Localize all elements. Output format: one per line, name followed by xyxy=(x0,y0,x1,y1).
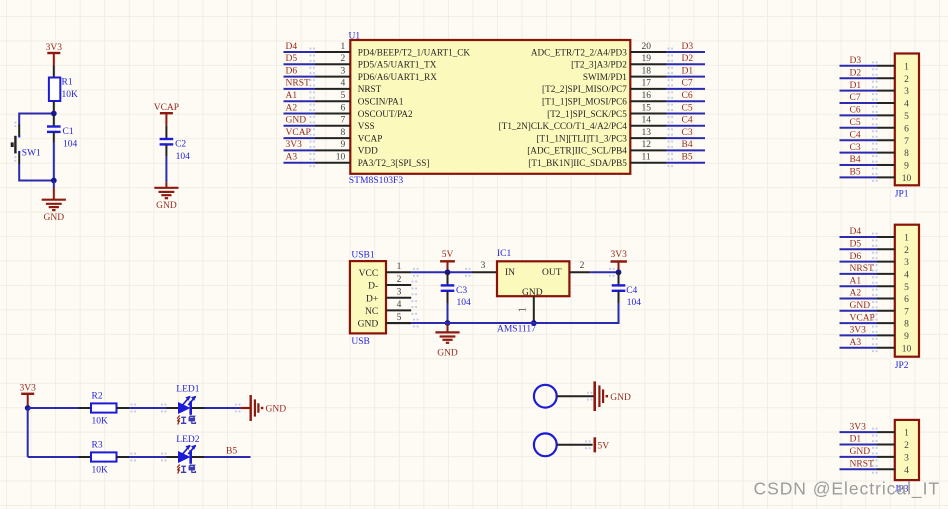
svg-text:PD4/BEEP/T2_1/UART1_CK: PD4/BEEP/T2_1/UART1_CK xyxy=(358,47,471,57)
svg-text:VDD: VDD xyxy=(358,146,378,156)
svg-text:1: 1 xyxy=(518,307,529,312)
svg-text:D5: D5 xyxy=(850,240,862,250)
svg-text:STM8S103F3: STM8S103F3 xyxy=(349,175,404,186)
svg-text:4: 4 xyxy=(904,466,909,476)
svg-text:104: 104 xyxy=(176,152,191,162)
svg-text:8: 8 xyxy=(904,149,909,159)
svg-text:[ADC_ETR]IIC_SCL/PB4: [ADC_ETR]IIC_SCL/PB4 xyxy=(527,146,627,156)
svg-text:OUT: OUT xyxy=(542,268,562,278)
svg-text:B4: B4 xyxy=(850,155,861,165)
svg-text:D1: D1 xyxy=(850,435,862,445)
svg-text:NRST: NRST xyxy=(286,79,310,89)
svg-text:C2: C2 xyxy=(175,140,186,150)
svg-text:IC1: IC1 xyxy=(497,249,512,259)
svg-text:14: 14 xyxy=(642,116,652,126)
svg-text:U1: U1 xyxy=(349,32,361,42)
svg-text:5V: 5V xyxy=(598,442,610,452)
svg-text:CSDN @Electrical_IT: CSDN @Electrical_IT xyxy=(754,479,941,500)
svg-text:D5: D5 xyxy=(286,54,298,64)
svg-text:OSCOUT/PA2: OSCOUT/PA2 xyxy=(358,109,413,119)
svg-text:D-: D- xyxy=(368,282,378,292)
svg-text:4: 4 xyxy=(904,271,909,281)
svg-text:PA3/T2_3[SPI_SS]: PA3/T2_3[SPI_SS] xyxy=(358,158,430,168)
svg-text:1: 1 xyxy=(904,429,909,439)
svg-text:NRST: NRST xyxy=(358,84,382,94)
svg-text:GND: GND xyxy=(156,201,177,211)
svg-text:2: 2 xyxy=(904,75,909,85)
svg-text:5: 5 xyxy=(397,313,402,323)
svg-text:5V: 5V xyxy=(442,250,454,260)
svg-text:C7: C7 xyxy=(850,93,861,103)
svg-text:2: 2 xyxy=(904,441,909,451)
svg-text:D3: D3 xyxy=(850,56,862,66)
svg-text:GND: GND xyxy=(850,447,871,457)
svg-text:A2: A2 xyxy=(850,289,862,299)
svg-text:3V3: 3V3 xyxy=(286,140,303,150)
svg-text:C5: C5 xyxy=(682,103,693,113)
svg-text:LED2: LED2 xyxy=(176,435,199,445)
svg-text:C5: C5 xyxy=(850,118,861,128)
svg-text:3V3: 3V3 xyxy=(850,422,867,432)
svg-text:3: 3 xyxy=(341,66,346,76)
svg-text:2: 2 xyxy=(904,246,909,256)
svg-text:3: 3 xyxy=(904,454,909,464)
svg-text:NRST: NRST xyxy=(850,264,874,274)
svg-text:JP1: JP1 xyxy=(895,190,909,200)
svg-text:C4: C4 xyxy=(626,286,637,296)
svg-text:15: 15 xyxy=(642,103,652,113)
svg-text:C3: C3 xyxy=(682,128,693,138)
svg-text:10K: 10K xyxy=(62,90,79,100)
svg-text:PD5/A5/UART1_TX: PD5/A5/UART1_TX xyxy=(358,60,437,70)
svg-text:A3: A3 xyxy=(286,153,298,163)
svg-text:[T2_2]SPI_MISO/PC7: [T2_2]SPI_MISO/PC7 xyxy=(542,84,627,94)
svg-text:GND: GND xyxy=(522,288,543,298)
svg-text:10K: 10K xyxy=(92,416,109,426)
svg-text:10: 10 xyxy=(336,153,346,163)
svg-text:9: 9 xyxy=(341,140,346,150)
svg-text:7: 7 xyxy=(904,137,909,147)
svg-text:C6: C6 xyxy=(682,91,693,101)
svg-text:AMS1117: AMS1117 xyxy=(497,325,536,335)
svg-text:2: 2 xyxy=(580,261,585,271)
svg-text:D2: D2 xyxy=(850,68,862,78)
svg-text:3V3: 3V3 xyxy=(611,250,628,260)
svg-text:3: 3 xyxy=(904,87,909,97)
svg-text:JP2: JP2 xyxy=(895,361,909,371)
svg-text:D+: D+ xyxy=(366,294,378,304)
svg-text:2: 2 xyxy=(397,275,402,285)
svg-text:D4: D4 xyxy=(286,42,298,52)
svg-text:D4: D4 xyxy=(850,227,862,237)
svg-text:4: 4 xyxy=(341,79,346,89)
svg-text:VCAP: VCAP xyxy=(286,128,311,138)
svg-text:B4: B4 xyxy=(682,140,693,150)
svg-text:VCAP: VCAP xyxy=(850,313,875,323)
svg-text:6: 6 xyxy=(904,295,909,305)
svg-text:IN: IN xyxy=(505,268,515,278)
svg-text:1: 1 xyxy=(904,234,909,244)
svg-text:A2: A2 xyxy=(286,103,298,113)
svg-text:[T1_BK1N]IIC_SDA/PB5: [T1_BK1N]IIC_SDA/PB5 xyxy=(528,158,627,168)
svg-text:2: 2 xyxy=(341,54,346,64)
svg-text:GND: GND xyxy=(358,320,379,330)
svg-text:11: 11 xyxy=(642,153,651,163)
svg-text:6: 6 xyxy=(341,103,346,113)
svg-text:OSCIN/PA1: OSCIN/PA1 xyxy=(358,97,404,107)
svg-text:B5: B5 xyxy=(682,153,693,163)
svg-text:D2: D2 xyxy=(682,54,694,64)
svg-text:13: 13 xyxy=(642,128,652,138)
svg-text:3: 3 xyxy=(481,261,486,271)
svg-text:8: 8 xyxy=(341,128,346,138)
svg-text:LED1: LED1 xyxy=(176,385,199,395)
svg-text:SWIM/PD1: SWIM/PD1 xyxy=(583,72,627,82)
svg-text:C4: C4 xyxy=(682,116,693,126)
svg-text:R1: R1 xyxy=(62,78,73,88)
svg-text:GND: GND xyxy=(850,301,871,311)
svg-text:104: 104 xyxy=(63,139,78,149)
svg-text:USB: USB xyxy=(351,337,369,347)
svg-text:10: 10 xyxy=(902,344,912,354)
svg-text:[T1_1N][TLI]T1_3/PC3: [T1_1N][TLI]T1_3/PC3 xyxy=(536,133,627,143)
svg-text:USB1: USB1 xyxy=(351,251,374,261)
svg-text:3V3: 3V3 xyxy=(20,384,37,394)
svg-text:1: 1 xyxy=(341,42,346,52)
svg-text:D6: D6 xyxy=(850,252,862,262)
svg-text:NC: NC xyxy=(365,307,378,317)
svg-text:5: 5 xyxy=(904,283,909,293)
svg-text:10K: 10K xyxy=(92,465,109,475)
svg-text:104: 104 xyxy=(457,298,472,308)
svg-text:17: 17 xyxy=(642,79,652,89)
svg-text:3V3: 3V3 xyxy=(46,43,63,53)
svg-text:A1: A1 xyxy=(286,91,298,101)
svg-text:7: 7 xyxy=(904,307,909,317)
svg-text:C1: C1 xyxy=(63,127,74,137)
svg-text:C3: C3 xyxy=(850,143,861,153)
svg-text:R2: R2 xyxy=(92,392,103,402)
svg-text:GND: GND xyxy=(44,213,65,223)
svg-text:VSS: VSS xyxy=(358,121,375,131)
svg-text:9: 9 xyxy=(904,162,909,172)
svg-text:GND: GND xyxy=(266,404,287,414)
svg-text:1: 1 xyxy=(397,262,402,272)
svg-text:8: 8 xyxy=(904,320,909,330)
svg-text:18: 18 xyxy=(642,66,652,76)
svg-text:B5: B5 xyxy=(850,168,861,178)
svg-text:3V3: 3V3 xyxy=(850,326,867,336)
svg-text:VCAP: VCAP xyxy=(154,103,179,113)
svg-text:6: 6 xyxy=(904,124,909,134)
svg-text:D3: D3 xyxy=(682,42,694,52)
svg-text:5: 5 xyxy=(904,112,909,122)
svg-text:1: 1 xyxy=(904,62,909,72)
svg-text:VCC: VCC xyxy=(359,269,379,279)
svg-text:[T1_2N]CLK_CCO/T1_4/A2/PC4: [T1_2N]CLK_CCO/T1_4/A2/PC4 xyxy=(499,121,628,131)
svg-text:[T2_3]A3/PD2: [T2_3]A3/PD2 xyxy=(571,60,627,70)
svg-text:R3: R3 xyxy=(92,441,103,451)
svg-text:C7: C7 xyxy=(682,79,693,89)
svg-text:20: 20 xyxy=(642,42,652,52)
svg-text:4: 4 xyxy=(397,300,402,310)
svg-text:C4: C4 xyxy=(850,130,861,140)
svg-text:16: 16 xyxy=(642,91,652,101)
svg-text:[T2_1]SPI_SCK/PC5: [T2_1]SPI_SCK/PC5 xyxy=(547,109,627,119)
svg-text:9: 9 xyxy=(904,332,909,342)
svg-text:19: 19 xyxy=(642,54,652,64)
svg-text:4: 4 xyxy=(904,100,909,110)
svg-text:VCAP: VCAP xyxy=(358,133,383,143)
svg-text:C3: C3 xyxy=(456,286,467,296)
svg-text:104: 104 xyxy=(627,298,642,308)
svg-text:GND: GND xyxy=(286,116,307,126)
svg-text:10: 10 xyxy=(902,174,912,184)
svg-text:D1: D1 xyxy=(850,81,862,91)
svg-text:C6: C6 xyxy=(850,106,861,116)
svg-text:A3: A3 xyxy=(850,338,862,348)
svg-text:12: 12 xyxy=(642,140,652,150)
svg-text:D1: D1 xyxy=(682,66,694,76)
svg-text:3: 3 xyxy=(904,258,909,268)
svg-text:[T1_1]SPI_MOSI/PC6: [T1_1]SPI_MOSI/PC6 xyxy=(542,97,627,107)
svg-text:GND: GND xyxy=(437,349,458,359)
svg-text:A1: A1 xyxy=(850,276,862,286)
svg-text:3: 3 xyxy=(397,288,402,298)
svg-text:D6: D6 xyxy=(286,66,298,76)
svg-text:ADC_ETR/T2_2/A4/PD3: ADC_ETR/T2_2/A4/PD3 xyxy=(531,47,627,57)
svg-text:7: 7 xyxy=(341,116,346,126)
svg-text:B5: B5 xyxy=(226,447,237,457)
svg-text:5: 5 xyxy=(341,91,346,101)
svg-text:PD6/A6/UART1_RX: PD6/A6/UART1_RX xyxy=(358,72,437,82)
svg-text:SW1: SW1 xyxy=(22,148,41,158)
svg-text:GND: GND xyxy=(610,393,631,403)
svg-text:NRST: NRST xyxy=(850,460,874,470)
